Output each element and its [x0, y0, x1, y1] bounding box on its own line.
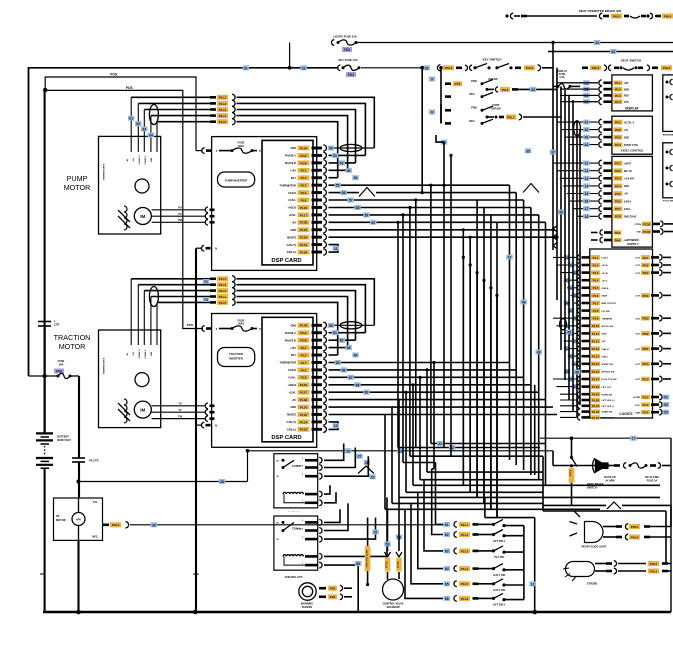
- svg-text:37: 37: [551, 151, 555, 155]
- svg-text:USB: USB: [151, 157, 153, 162]
- wire bundle row 12: [385, 508, 600, 510]
- svg-text:29: 29: [371, 475, 375, 479]
- svg-text:PA4: PA4: [615, 143, 621, 147]
- svg-text:PL30: PL30: [300, 206, 308, 210]
- wire bank drop to bus: [529, 581, 536, 586]
- svg-text:FU3: FU3: [348, 73, 354, 77]
- wire park feed from alarm line: [552, 451, 554, 466]
- wire POS row 1: [45, 77, 196, 151]
- svg-text:PL11: PL11: [592, 332, 600, 336]
- svg-text:POS: POS: [126, 86, 133, 90]
- pin logics left LVL SW: [577, 310, 578, 312]
- svg-text:63: 63: [445, 549, 449, 553]
- svg-text:71: 71: [204, 280, 208, 284]
- connector P1L1 traction aux: [131, 278, 210, 280]
- wire bundle row 2: [398, 447, 540, 449]
- wire dir switch feed: [440, 68, 442, 124]
- wire flood strobe risers: [670, 505, 672, 526]
- svg-text:45: 45: [567, 331, 571, 335]
- svg-text:85: 85: [336, 361, 340, 365]
- node PS junction: [76, 479, 80, 483]
- svg-text:ACCEL SIG: ACCEL SIG: [602, 325, 614, 328]
- svg-text:PHASE B: PHASE B: [285, 339, 296, 342]
- svg-text:CAN H: CAN H: [288, 369, 296, 372]
- svg-text:PL2: PL2: [615, 88, 621, 92]
- svg-text:PL12: PL12: [592, 339, 600, 343]
- svg-text:P3L1: P3L1: [650, 569, 658, 573]
- svg-text:GND CHAS: GND CHAS: [624, 216, 637, 219]
- svg-text:59: 59: [365, 213, 369, 217]
- svg-text:TXD: TXD: [624, 102, 629, 104]
- switch LIFT SW 2: [405, 509, 443, 598]
- wire traction N to NEG riser: [196, 424, 202, 426]
- wire PS motor drop: [78, 482, 80, 499]
- svg-text:FUSE 5A: FUSE 5A: [647, 480, 658, 483]
- svg-text:PL17: PL17: [300, 213, 308, 217]
- switch FWD FOOT DIR SW: [429, 110, 436, 115]
- wire pump DSP CAN pair loop: [329, 245, 339, 253]
- wire upper logics vertical ties: [462, 257, 464, 485]
- svg-text:PL20: PL20: [300, 228, 308, 232]
- pin relay1 row 1: [305, 459, 318, 462]
- svg-text:64: 64: [445, 567, 449, 571]
- pin power supply GND CHAS: [577, 215, 598, 217]
- wire fuse to PS branch: [70, 375, 79, 377]
- svg-text:LVL SW: LVL SW: [602, 311, 611, 313]
- svg-text:PA4: PA4: [643, 256, 649, 260]
- svg-text:PUMP INVERTER: PUMP INVERTER: [225, 179, 247, 183]
- svg-text:80: 80: [329, 324, 333, 328]
- svg-text:PL8: PL8: [301, 198, 307, 202]
- svg-text:CAN H: CAN H: [288, 192, 296, 195]
- svg-text:KEY: KEY: [291, 354, 296, 357]
- svg-text:53: 53: [347, 169, 351, 173]
- svg-text:PL8: PL8: [593, 309, 599, 313]
- svg-text:42: 42: [585, 128, 589, 132]
- switch TILT SW: [424, 480, 443, 551]
- svg-text:OUT: OUT: [635, 296, 640, 298]
- wire POS row 2: [45, 90, 203, 328]
- svg-text:SUPPLY: SUPPLY: [627, 242, 639, 246]
- svg-text:CAN (L): CAN (L): [287, 429, 296, 432]
- svg-text:N: N: [215, 247, 217, 251]
- svg-text:+15V KEY: +15V KEY: [624, 179, 635, 181]
- svg-text:P1L2: P1L2: [219, 283, 227, 287]
- fuse BK ALARM FUSE 5A: [630, 463, 646, 468]
- svg-text:PL17: PL17: [592, 377, 600, 381]
- svg-text:58: 58: [356, 562, 360, 566]
- wire seat feed line: [548, 51, 673, 53]
- svg-text:15: 15: [585, 192, 589, 196]
- svg-text:12: 12: [585, 169, 589, 173]
- svg-text:START SW: START SW: [602, 363, 614, 366]
- svg-text:PL19: PL19: [592, 393, 600, 397]
- svg-text:P6L5: P6L5: [613, 14, 621, 18]
- svg-text:PA3: PA3: [615, 136, 621, 140]
- svg-text:PA2: PA2: [643, 271, 649, 275]
- svg-text:TRACTION: TRACTION: [229, 352, 243, 356]
- svg-text:GND: GND: [637, 232, 642, 234]
- svg-text:THR(BRK): THR(BRK): [602, 318, 613, 320]
- svg-text:CAN (Y): CAN (Y): [287, 244, 297, 247]
- node lattice junction dots: [429, 184, 432, 187]
- svg-text:COM 4: COM 4: [297, 464, 304, 467]
- svg-text:FWD: FWD: [471, 80, 477, 83]
- dsp card pump: [262, 140, 313, 265]
- pin relay2 row 3: [305, 538, 318, 541]
- svg-text:88: 88: [356, 383, 360, 387]
- svg-text:86: 86: [342, 368, 346, 372]
- pin relay2 row 1: [305, 521, 318, 524]
- svg-text:54: 54: [354, 176, 358, 180]
- pin power supply +BATT: [553, 162, 598, 164]
- block AXXEL CONTROL: [612, 116, 653, 154]
- pin logics left THR(BRK): [553, 317, 577, 319]
- svg-text:STROBE: STROBE: [587, 583, 598, 586]
- wire bundle row 5: [432, 468, 434, 470]
- svg-text:31: 31: [302, 66, 306, 70]
- svg-text:PA5: PA5: [615, 231, 621, 235]
- pin relay1 row 5: [305, 502, 318, 505]
- switch AUX 1 SW: [418, 492, 443, 568]
- svg-text:PL7: PL7: [301, 361, 307, 365]
- node control bus junction: [246, 449, 250, 453]
- switch LIFT SW 1: [432, 469, 443, 535]
- wire POS stub to pump F: [196, 150, 202, 152]
- cable marker pump thermistor pair: [149, 105, 158, 125]
- pin logics left CAN H: [567, 348, 577, 350]
- pin power supply +15V KEY: [560, 177, 598, 179]
- svg-text:PC30: PC30: [643, 230, 651, 234]
- svg-text:38: 38: [220, 480, 224, 484]
- connector P2L2 PS motor output: [103, 524, 109, 527]
- pin logics left +5V: [564, 340, 577, 342]
- svg-text:P1L5: P1L5: [219, 120, 227, 124]
- svg-text:12: 12: [531, 582, 535, 586]
- svg-text:12: 12: [334, 424, 338, 428]
- node bus junction 1: [76, 610, 81, 615]
- svg-text:FOOT SW: FOOT SW: [663, 201, 673, 203]
- svg-text:87: 87: [349, 376, 353, 380]
- svg-text:PL20: PL20: [300, 405, 308, 409]
- wire long center verticals: [509, 185, 511, 460]
- wire pump DSP lower rows to logics verticals: [329, 230, 464, 485]
- svg-text:USB: USB: [151, 351, 153, 356]
- svg-text:PL17: PL17: [300, 391, 308, 395]
- svg-text:PC8: PC8: [615, 215, 621, 219]
- pin power supply CAN L: [573, 208, 598, 210]
- svg-text:REV: REV: [469, 93, 474, 96]
- svg-text:OUT: OUT: [635, 318, 640, 320]
- wire stray vertical 444: [443, 142, 445, 447]
- svg-text:GND: GND: [624, 89, 629, 91]
- svg-text:83: 83: [347, 346, 351, 350]
- svg-text:+BV: +BV: [624, 83, 629, 85]
- svg-text:COIL: COIL: [635, 405, 641, 407]
- svg-text:APU: APU: [76, 518, 81, 521]
- svg-text:TRACTION: TRACTION: [54, 333, 91, 342]
- svg-text:PL21: PL21: [592, 404, 600, 408]
- svg-text:PV: PV: [178, 213, 182, 216]
- svg-text:CAN L: CAN L: [288, 199, 296, 202]
- wire bundle row 4: [403, 462, 436, 464]
- wire traction DSP mid exits: [329, 363, 435, 469]
- wire pump N to NEG riser: [196, 247, 202, 249]
- speaker BACK UP ALARM: [595, 458, 603, 473]
- svg-text:SEAT SWITCH: SEAT SWITCH: [621, 59, 641, 63]
- wire key feed drop to DSP: [421, 68, 423, 193]
- svg-text:PHASE V: PHASE V: [144, 349, 147, 358]
- svg-text:CTR: CTR: [54, 323, 59, 327]
- svg-text:P1L1: P1L1: [219, 96, 227, 100]
- svg-text:P1L2: P1L2: [461, 533, 469, 537]
- svg-text:74: 74: [204, 298, 208, 302]
- svg-text:PL4: PL4: [593, 279, 599, 283]
- svg-text:18: 18: [585, 215, 589, 219]
- svg-text:MOTOR: MOTOR: [56, 518, 66, 522]
- svg-text:- - - - -: - - - - -: [288, 508, 300, 513]
- wire pump aux drops to DSP rows: [237, 97, 375, 148]
- svg-text:OUT: OUT: [635, 334, 640, 336]
- pin logics left ATTACH SW: [577, 370, 578, 372]
- svg-text:GND: GND: [290, 406, 296, 409]
- svg-text:PL30: PL30: [300, 383, 308, 387]
- wire PS motor to bus: [77, 540, 79, 612]
- wire bundle row 7: [420, 479, 543, 481]
- svg-text:PB1: PB1: [642, 347, 648, 351]
- svg-text:PC7: PC7: [615, 207, 621, 211]
- svg-text:+5V: +5V: [291, 399, 296, 402]
- svg-text:+5V B: +5V B: [602, 273, 609, 275]
- svg-text:P1L4: P1L4: [219, 114, 227, 118]
- svg-text:PB4: PB4: [642, 294, 648, 298]
- svg-text:GRAB SW: GRAB SW: [602, 411, 614, 414]
- svg-text:PC1: PC1: [615, 162, 621, 166]
- block LOGICS: [590, 249, 653, 418]
- svg-text:11: 11: [334, 247, 338, 251]
- connector P1L5 pump aux: [157, 121, 210, 123]
- svg-text:PL38: PL38: [300, 221, 308, 225]
- motor coil traction: [124, 399, 127, 423]
- svg-text:P9L1: P9L1: [507, 115, 515, 119]
- svg-text:+1B: +1B: [133, 158, 135, 162]
- svg-text:BRK CUTOUT: BRK CUTOUT: [602, 303, 617, 305]
- svg-text:PC3: PC3: [642, 377, 648, 381]
- svg-text:17: 17: [585, 207, 589, 211]
- pin logics left lower group: [560, 393, 577, 395]
- pin axxel START CTRL: [569, 144, 598, 146]
- svg-text:PL3: PL3: [301, 191, 307, 195]
- wire traction rows continue right: [434, 362, 510, 364]
- connector P1L4 pump aux: [151, 115, 210, 117]
- pin display RXD: [560, 94, 598, 96]
- svg-text:ATTACH SW: ATTACH SW: [602, 371, 616, 374]
- label TRACTION INVERTER: [218, 348, 255, 367]
- svg-text:PG2: PG2: [300, 331, 306, 335]
- svg-text:PUMP: PUMP: [67, 174, 88, 183]
- svg-text:N: N: [215, 424, 217, 428]
- switch AUX 2 SW: [411, 503, 443, 583]
- svg-text:5.6A: 5.6A: [559, 76, 564, 79]
- svg-text:PHASE U: PHASE U: [138, 349, 141, 358]
- svg-text:DIR SW: DIR SW: [491, 107, 501, 110]
- svg-text:64: 64: [149, 133, 153, 137]
- dsp card traction: [262, 317, 313, 442]
- svg-text:COIL1: COIL1: [602, 258, 609, 260]
- svg-text:PL4: PL4: [615, 100, 621, 104]
- svg-text:2: 2: [302, 474, 303, 476]
- svg-text:82: 82: [340, 339, 344, 343]
- svg-text:51: 51: [333, 154, 337, 158]
- node bus junction 3: [532, 610, 537, 615]
- svg-text:PL1: PL1: [615, 81, 621, 85]
- wire pump phase leads PU PV PW: [152, 209, 206, 211]
- svg-text:LIFT CUT: LIFT CUT: [602, 387, 612, 389]
- svg-text:DISPLAY: DISPLAY: [625, 106, 639, 110]
- node vertical bundle labels: [525, 148, 532, 153]
- svg-text:33: 33: [531, 88, 535, 92]
- svg-text:LIFT SW 1: LIFT SW 1: [493, 540, 506, 543]
- node key line junction: [288, 66, 292, 70]
- block right edge connector A: [663, 75, 673, 131]
- svg-text:CAN L: CAN L: [288, 377, 296, 380]
- wire bundle row 8: [413, 484, 660, 486]
- svg-text:84: 84: [354, 354, 358, 358]
- svg-text:56: 56: [342, 191, 346, 195]
- svg-text:MODE2: MODE2: [287, 236, 297, 239]
- pin axxel GND: [565, 136, 598, 138]
- svg-text:P1L6: P1L6: [461, 597, 469, 601]
- svg-text:50A: 50A: [59, 364, 64, 367]
- svg-text:PL25: PL25: [300, 413, 308, 417]
- svg-text:P1L5: P1L5: [219, 301, 227, 305]
- svg-text:KEY SWITCH: KEY SWITCH: [483, 58, 502, 62]
- svg-text:+15VL: +15VL: [289, 214, 297, 217]
- connector flood light rows: [603, 526, 616, 528]
- motor IM traction: [134, 401, 151, 418]
- pin relay2 row 5: [305, 564, 318, 567]
- wire PS junction to center riser: [79, 481, 248, 483]
- svg-text:GND: GND: [290, 147, 296, 150]
- svg-text:66: 66: [445, 597, 449, 601]
- svg-text:NEG: NEG: [92, 536, 97, 539]
- svg-text:17: 17: [632, 437, 636, 441]
- svg-text:PL40: PL40: [300, 324, 308, 328]
- wire control bus y450.8: [248, 450, 554, 452]
- svg-text:GND: GND: [635, 412, 640, 414]
- svg-text:PS: PS: [56, 514, 60, 518]
- svg-text:+1B: +1B: [133, 352, 135, 356]
- svg-text:PC4: PC4: [642, 362, 648, 366]
- svg-text:32: 32: [425, 66, 429, 70]
- solenoid CONTROL VALVE: [383, 579, 404, 600]
- svg-text:59: 59: [386, 543, 390, 547]
- svg-text:CAN L: CAN L: [602, 355, 609, 358]
- svg-text:GND A: GND A: [602, 287, 609, 290]
- svg-text:6: 6: [302, 492, 303, 494]
- svg-text:GND: GND: [624, 240, 629, 242]
- pin axxel ACCEL A: [557, 121, 598, 123]
- svg-text:PL7: PL7: [593, 301, 599, 305]
- pin power supply +5V: [567, 193, 598, 195]
- wire traction drop to bus junction: [534, 518, 536, 612]
- svg-text:P7Y2: P7Y2: [397, 561, 400, 568]
- svg-text:PT6: PT6: [455, 82, 461, 86]
- svg-text:START CTRL: START CTRL: [624, 144, 639, 147]
- relay CON4 box 1: [274, 454, 318, 508]
- svg-text:GND: GND: [290, 325, 296, 328]
- svg-text:3: 3: [302, 520, 303, 522]
- svg-text:48: 48: [522, 301, 526, 305]
- svg-text:GND: GND: [290, 229, 296, 232]
- svg-text:P6L2: P6L2: [663, 66, 671, 70]
- svg-text:SEAT: SEAT: [602, 295, 608, 298]
- svg-text:PHASE A: PHASE A: [285, 155, 296, 158]
- svg-text:CAN (L): CAN (L): [287, 251, 296, 254]
- svg-text:COM 4: COM 4: [297, 527, 304, 530]
- svg-text:CAN L: CAN L: [624, 208, 632, 211]
- svg-text:PL34: PL34: [300, 420, 308, 424]
- svg-text:HORN: HORN: [634, 397, 641, 399]
- svg-text:57: 57: [349, 199, 353, 203]
- wire pump exit drop verticals right set: [476, 200, 478, 497]
- svg-text:PHASE V: PHASE V: [144, 155, 147, 164]
- connector dir sw common: [486, 88, 489, 91]
- svg-text:PL2: PL2: [593, 263, 599, 267]
- thermal sensor traction: [135, 373, 149, 387]
- pin axxel +5V: [561, 129, 598, 131]
- svg-text:FWD: FWD: [471, 107, 477, 110]
- wire stray vertical 451: [450, 155, 452, 456]
- svg-text:THERMISTOR: THERMISTOR: [280, 362, 297, 365]
- svg-text:11: 11: [585, 162, 589, 166]
- svg-text:52: 52: [664, 403, 668, 407]
- block right edge connector B: [663, 143, 673, 198]
- svg-text:26: 26: [346, 449, 350, 453]
- wire bundle row 6: [427, 471, 543, 473]
- svg-text:39: 39: [559, 211, 563, 215]
- svg-text:+5V: +5V: [602, 341, 606, 343]
- capacitor PS CTR: [72, 457, 85, 459]
- svg-text:RXD: RXD: [624, 96, 629, 98]
- pin logics left GND: [560, 332, 577, 334]
- svg-text:PL1: PL1: [301, 169, 307, 173]
- svg-text:TV: TV: [178, 409, 182, 412]
- fuse traction 500A input: [202, 326, 205, 332]
- wire logics cluster verticals: [552, 86, 554, 250]
- svg-text:PL2: PL2: [301, 353, 307, 357]
- pin logics left BRK CUTOUT: [574, 302, 577, 304]
- svg-text:OUT: OUT: [635, 349, 640, 351]
- svg-text:2: 2: [302, 537, 303, 539]
- motor PUMP MOTOR box: [99, 136, 161, 234]
- svg-text:+15V: +15V: [290, 347, 296, 350]
- motor coil pump: [124, 206, 127, 230]
- svg-text:CAN (Y): CAN (Y): [287, 421, 297, 424]
- battery 36/48 volt: [36, 432, 53, 434]
- relay CON4 box 2: [274, 516, 318, 570]
- svg-text:PL25: PL25: [300, 236, 308, 240]
- svg-text:PL9: PL9: [593, 317, 599, 321]
- connector P1L3 pump aux: [144, 109, 210, 111]
- svg-text:TILT SW: TILT SW: [494, 556, 504, 559]
- svg-text:PL6: PL6: [593, 294, 599, 298]
- node POS junction: [43, 88, 47, 92]
- svg-text:OUT: OUT: [635, 265, 640, 267]
- svg-text:89: 89: [365, 391, 369, 395]
- connector P1L2 traction aux: [138, 284, 210, 286]
- pin logics left +5V C: [564, 279, 577, 281]
